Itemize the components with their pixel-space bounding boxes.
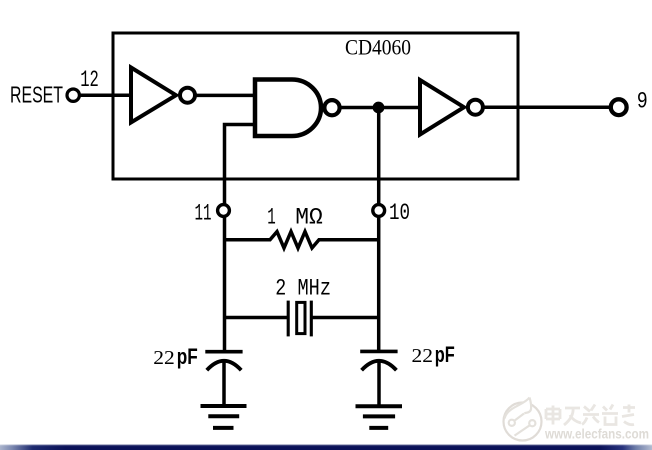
wire crystal rail right [312, 316, 379, 320]
svg-text:2: 2 [275, 275, 286, 302]
svg-text:pF: pF [177, 344, 198, 369]
wire to output terminal 9 [483, 105, 612, 109]
wire NAND to inverter U1c [339, 106, 422, 110]
terminal pin 9 [611, 99, 627, 115]
wire inverter to NAND input 1 [195, 94, 256, 98]
inverter U1c triangle [420, 80, 464, 135]
svg-text:MΩ: MΩ [295, 205, 323, 231]
ground right [356, 406, 403, 428]
svg-text:www.elecfans.com: www.elecfans.com [544, 427, 649, 442]
resistor R1 zigzag [225, 232, 379, 248]
svg-text:CD4060: CD4060 [345, 34, 411, 59]
svg-text:22: 22 [412, 345, 434, 367]
wire NAND input 2 (L bend to pin 11) [225, 125, 257, 352]
watermark logo circle [504, 398, 542, 441]
watermark text 电子发烧友 (stylized) [546, 405, 635, 426]
NAND gate U1b [255, 80, 321, 137]
wire junction to pin 10 [377, 108, 381, 352]
inverter U1c bubble [468, 100, 483, 115]
inverter U1a bubble [180, 88, 195, 103]
wire C2 to ground [377, 361, 381, 406]
wire C1 to ground [222, 361, 226, 406]
ground left [201, 406, 247, 428]
wire crystal rail left [225, 316, 288, 320]
svg-text:22: 22 [153, 347, 175, 369]
svg-text:MHz: MHz [298, 275, 332, 302]
svg-text:11: 11 [195, 201, 212, 227]
capacitor C1 top plate [205, 350, 242, 354]
inverter U1a triangle [131, 68, 176, 123]
svg-text:9: 9 [637, 88, 648, 114]
terminal pin 11 [218, 205, 230, 217]
svg-text:RESET: RESET [10, 82, 63, 108]
svg-text:1: 1 [267, 205, 276, 231]
crystal Y1 left plate [287, 301, 290, 337]
terminal pin 10 [373, 205, 385, 217]
wire RESET to inverter [80, 93, 133, 97]
terminal pin 12 [67, 89, 79, 101]
IC box CD4060 [113, 33, 518, 179]
svg-text:12: 12 [80, 67, 99, 93]
svg-text:10: 10 [389, 200, 410, 226]
crystal Y1 right plate [310, 301, 313, 337]
junction dot [373, 102, 385, 114]
capacitor C2 curved plate [362, 361, 397, 370]
crystal Y1 body [297, 302, 305, 333]
capacitor C2 top plate [360, 350, 397, 354]
capacitor C1 curved plate [207, 361, 241, 370]
svg-text:pF: pF [435, 342, 455, 367]
NAND bubble [324, 100, 339, 115]
